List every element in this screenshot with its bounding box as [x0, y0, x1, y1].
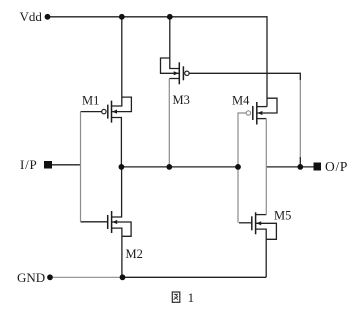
svg-text:I/P: I/P	[20, 157, 38, 172]
svg-text:GND: GND	[17, 270, 45, 285]
svg-text:M3: M3	[173, 93, 190, 107]
svg-text:M1: M1	[82, 93, 99, 107]
svg-text:1: 1	[188, 290, 195, 305]
svg-text:Vdd: Vdd	[20, 9, 43, 24]
svg-text:M2: M2	[126, 247, 143, 261]
svg-text:O/P: O/P	[325, 159, 348, 174]
svg-text:M4: M4	[232, 93, 250, 107]
svg-text:M5: M5	[274, 209, 291, 223]
